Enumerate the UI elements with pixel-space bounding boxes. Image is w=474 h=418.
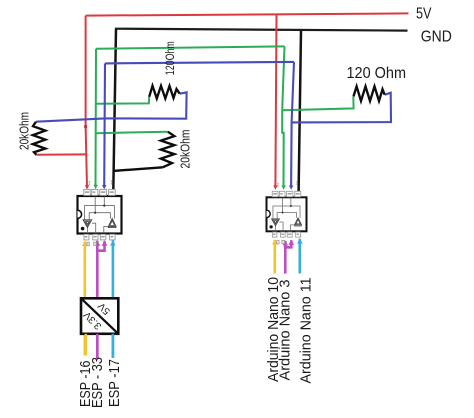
arrowhead blue U2 bbox=[289, 185, 294, 189]
wire cyan below shifter bbox=[112, 334, 115, 358]
net tag U2 a bbox=[277, 241, 279, 244]
wire cyan U1 pin8 bbox=[112, 240, 115, 358]
wire yellow U1 pin5 to level shifter bbox=[84, 242, 87, 356]
wire magenta U1 pin6/7 bbox=[96, 241, 99, 359]
pin number marks U2 bbox=[277, 181, 297, 187]
net tag U2 b bbox=[282, 240, 285, 243]
wire magenta jog U2 bbox=[285, 240, 291, 247]
wire black vertical to U1 pin4 bbox=[113, 29, 116, 191]
wire green bus horizontal bbox=[96, 46, 285, 48]
arrowhead magenta U1 pin6 bbox=[95, 240, 101, 245]
wire blue bus horizontal bbox=[105, 62, 294, 64]
svg-text:20kOhm: 20kOhm bbox=[17, 112, 32, 150]
wire magenta jog U1 bbox=[97, 241, 104, 251]
wire red R1 bottom bbox=[36, 153, 86, 155]
wire green vertical to U1 pin2 bbox=[95, 49, 98, 187]
wire red vertical to U2 pin1 bbox=[275, 14, 276, 187]
arrowhead magenta U1 bbox=[102, 240, 108, 245]
arrowhead yellow U1 bbox=[82, 241, 88, 246]
arrowhead cyan U2 bbox=[297, 238, 303, 243]
wire cyan U2 pin8 bbox=[298, 239, 301, 274]
arrowhead yellow U2 bbox=[272, 239, 278, 244]
wire blue tee to R4 right bbox=[292, 93, 391, 123]
resistor R4 120 Ohm (right, horizontal) bbox=[354, 86, 385, 101]
wire green vertical to U2 pin2 bbox=[282, 46, 284, 186]
IC U2 (right transceiver) bbox=[266, 191, 306, 237]
resistor R2 120Ohm (top middle, horizontal) bbox=[149, 86, 180, 99]
arrowhead green U2 bbox=[281, 185, 285, 189]
arrowhead magenta U2 pin6 bbox=[283, 240, 289, 245]
resistor R3 20kOhm (middle, vertical) bbox=[161, 132, 175, 168]
5V rail wire (red) bbox=[86, 13, 409, 15]
svg-text:120 Ohm: 120 Ohm bbox=[347, 65, 407, 82]
wire green tee to R3 top bbox=[96, 132, 168, 134]
svg-text:120Ohm: 120Ohm bbox=[165, 41, 177, 75]
svg-text:ESP - 33: ESP - 33 bbox=[90, 357, 106, 408]
junction red bbox=[84, 125, 87, 128]
GND rail wire (black) bbox=[115, 29, 408, 31]
level shifter box bbox=[81, 298, 118, 334]
wire black R3 bottom to GND vertical bbox=[113, 167, 163, 171]
svg-text:GND: GND bbox=[421, 29, 452, 46]
arrowhead green U1 bbox=[93, 185, 97, 189]
arrowhead red U2 bbox=[273, 185, 278, 189]
svg-text:Arduino Nano 3: Arduino Nano 3 bbox=[277, 280, 294, 381]
svg-text:20kOhm: 20kOhm bbox=[177, 130, 192, 169]
arrowhead cyan U1 bbox=[110, 240, 116, 245]
level shifter diagonal bbox=[81, 298, 118, 334]
wire green tee to R2 left bbox=[96, 97, 149, 104]
resistor R1 20kOhm (left, vertical) bbox=[33, 122, 46, 155]
net tag U1 a bbox=[87, 242, 89, 246]
wire blue vertical to U2 pin3 bbox=[291, 62, 294, 187]
wire blue vertical to U1 pin3 bbox=[103, 63, 106, 186]
wire blue R1 top to R2 right bbox=[36, 92, 187, 121]
IC U1 (left transceiver) bbox=[78, 189, 122, 240]
svg-text:Arduino Nano 11: Arduino Nano 11 bbox=[298, 278, 315, 384]
arrowhead magenta U2 bbox=[289, 240, 295, 245]
wire yellow below shifter bbox=[85, 334, 88, 356]
wire magenta below shifter bbox=[96, 334, 99, 359]
pin number marks U1 bbox=[89, 180, 112, 184]
wire magenta U2 pin6/7 bbox=[284, 241, 287, 274]
wire red vertical to U1 pin1 bbox=[86, 16, 87, 187]
svg-text:ESP -17: ESP -17 bbox=[107, 359, 123, 407]
wire green tee to R4 left bbox=[282, 96, 353, 110]
svg-text:5V: 5V bbox=[416, 5, 432, 22]
arrowhead red U1 bbox=[85, 185, 90, 189]
wire yellow U2 pin5 bbox=[273, 240, 276, 274]
arrowhead blue U1 bbox=[102, 185, 107, 189]
net tag U1 b bbox=[94, 242, 97, 245]
wire black vertical to U2 pin4 bbox=[299, 31, 301, 192]
